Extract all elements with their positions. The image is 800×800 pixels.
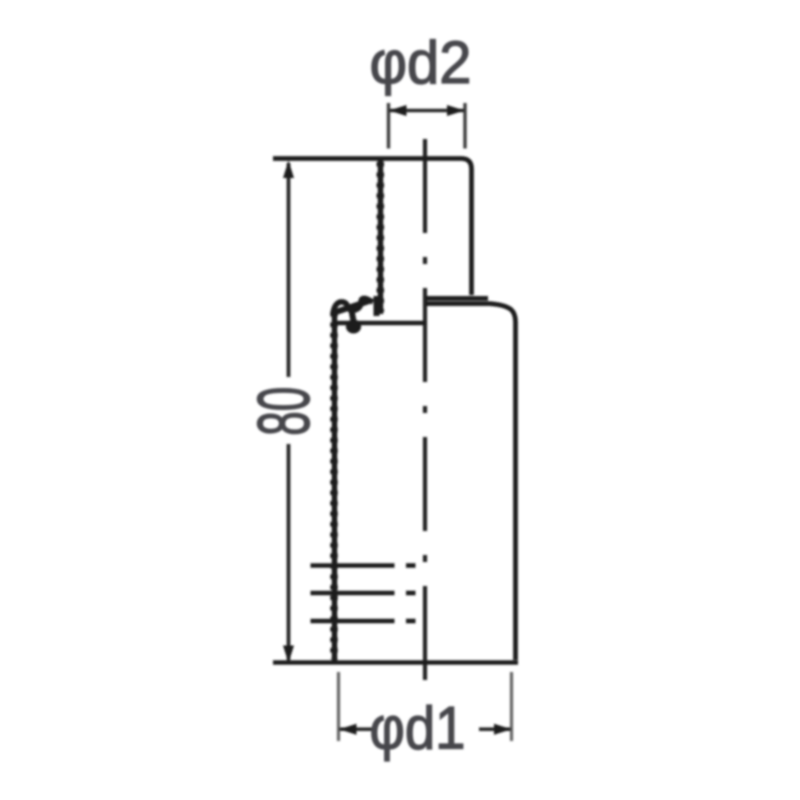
svg-text:φd2: φd2 (370, 29, 472, 96)
svg-text:φd1: φd1 (370, 695, 466, 762)
svg-text:80: 80 (244, 387, 325, 436)
